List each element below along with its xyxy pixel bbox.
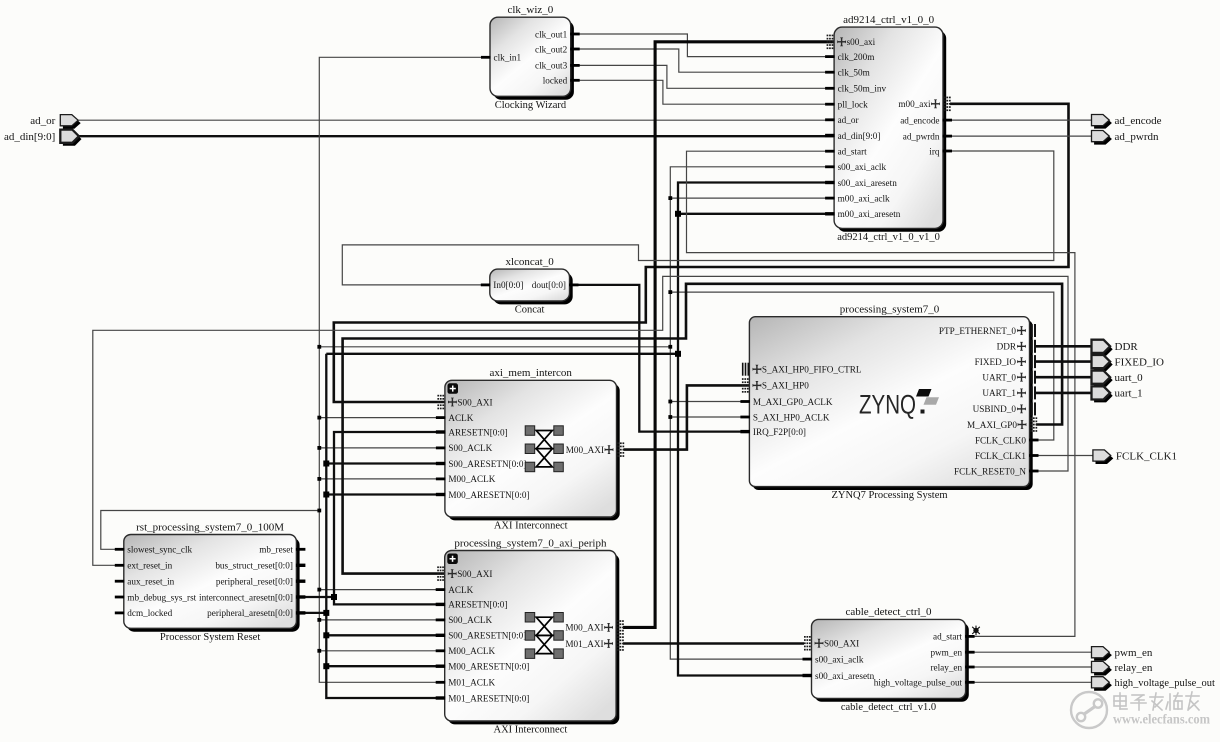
svg-text:s00_axi_aclk: s00_axi_aclk: [815, 654, 864, 664]
svg-text:M00_AXI: M00_AXI: [565, 623, 603, 633]
svg-text:ACLK: ACLK: [448, 413, 473, 423]
block clk_wiz_0: [481, 4, 580, 111]
svg-text:m00_axi_aclk: m00_axi_aclk: [838, 193, 890, 203]
svg-text:FCLK_CLK0: FCLK_CLK0: [975, 435, 1026, 445]
svg-text:S00_AXI: S00_AXI: [824, 639, 859, 649]
svg-text:ad_din[9:0]: ad_din[9:0]: [4, 131, 55, 143]
svg-text:m00_axi_aresetn: m00_axi_aresetn: [838, 209, 901, 219]
block processing_system7_0_axi_periph: [436, 537, 624, 735]
svg-text:DDR: DDR: [1115, 341, 1139, 353]
wire FIXED_IO wire: [1036, 360, 1092, 363]
svg-text:UART_1: UART_1: [982, 388, 1016, 398]
junction dots center clock spine: [668, 196, 672, 419]
svg-text:ARESETN[0:0]: ARESETN[0:0]: [448, 427, 507, 437]
elecfans watermark chinese text: [1114, 692, 1199, 710]
svg-text:locked: locked: [543, 76, 568, 86]
svg-text:high_voltage_pulse_out: high_voltage_pulse_out: [1115, 677, 1215, 689]
wire clock branch slowest_sync_clk: [101, 511, 319, 550]
svg-text:S_AXI_HP0_ACLK: S_AXI_HP0_ACLK: [753, 412, 830, 422]
svg-text:In0[0:0]: In0[0:0]: [493, 280, 523, 290]
svg-text:M01_AXI: M01_AXI: [565, 639, 603, 649]
svg-text:processing_system7_0: processing_system7_0: [840, 304, 940, 316]
svg-text:clk_wiz_0: clk_wiz_0: [507, 4, 553, 16]
output port DDR: [1092, 340, 1139, 356]
svg-text:ad_pwrdn: ad_pwrdn: [1115, 131, 1159, 143]
svg-text:S00_ACLK: S00_ACLK: [448, 615, 492, 625]
wire clock branch M_AXI_GP0_ACLK: [670, 401, 749, 403]
wire clk_out3 to clk_50m_inv: [571, 65, 834, 88]
svg-text:dout[0:0]: dout[0:0]: [532, 280, 566, 290]
block cable_detect_ctrl_0: [803, 606, 980, 713]
wire clock branch S_AXI_HP0_ACLK: [670, 416, 749, 418]
svg-text:M00_ARESETN[0:0]: M00_ARESETN[0:0]: [448, 490, 529, 500]
wire clock branch ACLK axi_mem: [319, 417, 445, 419]
svg-text:M_AXI_GP0: M_AXI_GP0: [967, 420, 1017, 430]
svg-text:high_voltage_pulse_out: high_voltage_pulse_out: [874, 678, 963, 688]
input port ad_din[9:0]: [4, 130, 82, 146]
wire clock branch S00_ACLK axi_periph: [319, 619, 444, 621]
wire clock cross-link between rails: [319, 346, 670, 348]
svg-text:relay_en: relay_en: [1115, 662, 1153, 674]
svg-text:rst_processing_system7_0_100M: rst_processing_system7_0_100M: [136, 521, 284, 533]
wire FCLK_CLK1 wire: [1030, 455, 1093, 457]
svg-text:FIXED_IO: FIXED_IO: [1115, 356, 1165, 368]
wire axi_mem M00_AXI to ZYNQ S_AXI_HP0: [624, 385, 750, 449]
wire aresetn branch M00_ARESETN axi_periph: [326, 665, 444, 667]
wire rst interconnect_aresetn to rail: [296, 596, 334, 598]
svg-text:ad_start: ad_start: [838, 147, 868, 157]
svg-text:axi_mem_intercon: axi_mem_intercon: [489, 367, 572, 379]
wire aresetn branch M00_ARESETN axi_mem: [326, 493, 445, 495]
svg-text:AXI Interconnect: AXI Interconnect: [494, 725, 568, 736]
svg-text:clk_in1: clk_in1: [494, 53, 522, 63]
svg-text:ad_pwrdn: ad_pwrdn: [903, 131, 940, 141]
svg-text:peripheral_aresetn[0:0]: peripheral_aresetn[0:0]: [207, 608, 293, 618]
svg-text:ACLK: ACLK: [448, 585, 473, 595]
svg-text:ad_din[9:0]: ad_din[9:0]: [838, 131, 881, 141]
wire clock branch S00_ACLK axi_mem: [319, 447, 445, 449]
svg-text:IRQ_F2P[0:0]: IRQ_F2P[0:0]: [753, 427, 806, 437]
wire rst peripheral_aresetn to rail: [296, 612, 326, 614]
wire UART_0 wire: [1036, 376, 1092, 379]
wire axi_periph M00_AXI to ad9214 s00_axi: [623, 42, 834, 628]
svg-text:FCLK_RESET0_N: FCLK_RESET0_N: [954, 466, 1026, 476]
wire ad_pwrdn wire: [943, 135, 1092, 137]
svg-text:clk_out3: clk_out3: [535, 61, 568, 71]
svg-text:S00_ARESETN[0:0]: S00_ARESETN[0:0]: [448, 459, 526, 469]
svg-text:FCLK_CLK1: FCLK_CLK1: [975, 451, 1026, 461]
svg-text:S_AXI_HP0_FIFO_CTRL: S_AXI_HP0_FIFO_CTRL: [762, 365, 862, 375]
svg-text:M00_AXI: M00_AXI: [566, 445, 604, 455]
wire aresetn branch m00_axi_aresetn: [678, 213, 834, 215]
svg-text:s00_axi_aresetn: s00_axi_aresetn: [838, 178, 898, 188]
svg-text:ad9214_ctrl_v1_0_0: ad9214_ctrl_v1_0_0: [843, 14, 935, 26]
svg-text:cable_detect_ctrl_v1.0: cable_detect_ctrl_v1.0: [841, 702, 936, 713]
svg-text:uart_0: uart_0: [1115, 372, 1144, 384]
svg-text:ZYNQ: ZYNQ: [859, 390, 916, 420]
svg-text:mb_debug_sys_rst: mb_debug_sys_rst: [127, 592, 196, 602]
svg-text:M00_ACLK: M00_ACLK: [448, 474, 495, 484]
block axi_mem_intercon: [436, 367, 624, 531]
wire cable ad_start to ad9214 ad_start: [687, 151, 1075, 636]
svg-text:Processor System Reset: Processor System Reset: [160, 632, 260, 643]
svg-text:ad_encode: ad_encode: [900, 115, 939, 125]
wire ad_din port to ad9214 ad_din: [74, 135, 834, 137]
junction dots interconnect aresetn: [331, 594, 337, 600]
block processing_system7_0 (ZYNQ): [740, 304, 1038, 502]
svg-text:Clocking Wizard: Clocking Wizard: [495, 100, 567, 111]
svg-text:S00_ARESETN[0:0]: S00_ARESETN[0:0]: [448, 631, 526, 641]
svg-text:ad_encode: ad_encode: [1115, 115, 1162, 127]
wire aresetn branch S00_ARESETN axi_mem: [326, 462, 445, 464]
svg-text:ext_reset_in: ext_reset_in: [127, 561, 172, 571]
wire FCLK_CLK0 left rail clk_in1/ACLK branches: [319, 57, 490, 682]
wire clock branch ACLK axi_periph: [319, 589, 444, 591]
wire aresetn branch S00_ARESETN axi_periph: [326, 634, 444, 636]
junction dots left clock rail: [317, 345, 321, 653]
svg-text:S_AXI_HP0: S_AXI_HP0: [762, 381, 809, 391]
block ad9214_ctrl_v1_0_0: [825, 14, 952, 243]
svg-text:m00_axi: m00_axi: [898, 99, 931, 109]
svg-text:relay_en: relay_en: [930, 662, 962, 672]
wire FCLK_CLK0 center spine s00_axi_aclk to cable aclk: [670, 167, 834, 659]
wire ad_encode wire: [943, 119, 1092, 121]
svg-text:UART_0: UART_0: [982, 373, 1016, 383]
input port ad_or: [30, 115, 80, 129]
svg-text:M01_ARESETN[0:0]: M01_ARESETN[0:0]: [448, 693, 529, 703]
wire ad_or port to ad9214 ad_or: [74, 119, 834, 121]
output port uart_0: [1092, 371, 1144, 387]
svg-text:S00_AXI: S00_AXI: [457, 569, 492, 579]
svg-text:peripheral_reset[0:0]: peripheral_reset[0:0]: [216, 577, 293, 587]
output port high_voltage_pulse_out: [1092, 677, 1215, 691]
elecfans watermark logo: [1071, 692, 1107, 728]
wire ad9214 irq to xlconcat In0: [342, 151, 1054, 285]
wire clock branch M00_ACLK axi_periph: [319, 650, 444, 652]
wire ZYNQ FCLK_RESET0_N to rst ext_reset_in: [93, 276, 1068, 565]
wire interconnect_aresetn to ARESETN pins: [334, 432, 445, 604]
svg-text:DDR: DDR: [997, 342, 1017, 352]
wire axi_periph M01_AXI to cable S00_AXI: [623, 642, 804, 645]
svg-text:FIXED_IO: FIXED_IO: [975, 357, 1017, 367]
wire ZYNQ M_AXI_GP0 to axi_periph S00_AXI: [343, 284, 1063, 574]
svg-text:ZYNQ7 Processing System: ZYNQ7 Processing System: [831, 490, 947, 501]
svg-text:M00_ACLK: M00_ACLK: [448, 646, 495, 656]
svg-text:M_AXI_GP0_ACLK: M_AXI_GP0_ACLK: [753, 397, 833, 407]
output port relay_en: [1092, 661, 1153, 675]
svg-text:M01_ACLK: M01_ACLK: [448, 678, 495, 688]
svg-text:pll_lock: pll_lock: [838, 100, 869, 110]
svg-text:dcm_locked: dcm_locked: [127, 608, 172, 618]
svg-text:mb_reset: mb_reset: [259, 545, 293, 555]
junction dots aresetn spine: [675, 211, 681, 357]
output port FIXED_IO: [1092, 355, 1165, 371]
svg-text:Concat: Concat: [515, 305, 545, 316]
output port pwm_en: [1092, 647, 1153, 661]
svg-text:S00_ACLK: S00_ACLK: [448, 443, 492, 453]
svg-text:xlconcat_0: xlconcat_0: [505, 256, 554, 268]
svg-text:ARESETN[0:0]: ARESETN[0:0]: [448, 600, 507, 610]
block rst_processing_system7_0_100M: [115, 521, 306, 643]
wire locked to pll_lock: [571, 80, 834, 104]
wire DDR wire: [1036, 345, 1092, 348]
svg-text:clk_50m_inv: clk_50m_inv: [838, 84, 887, 94]
svg-text:irq: irq: [929, 146, 940, 156]
svg-text:ad9214_ctrl_v1_0_v1_0: ad9214_ctrl_v1_0_v1_0: [837, 232, 940, 243]
output port FCLK_CLK1: [1093, 450, 1177, 464]
svg-text:cable_detect_ctrl_0: cable_detect_ctrl_0: [845, 606, 932, 618]
svg-text:aux_reset_in: aux_reset_in: [127, 577, 174, 587]
svg-text:AXI Interconnect: AXI Interconnect: [494, 521, 568, 532]
svg-text:M00_ARESETN[0:0]: M00_ARESETN[0:0]: [448, 662, 529, 672]
svg-text:S00_AXI: S00_AXI: [457, 397, 492, 407]
svg-text:bus_struct_reset[0:0]: bus_struct_reset[0:0]: [215, 561, 293, 571]
svg-text:s00_axi: s00_axi: [847, 37, 876, 47]
svg-text:www.elecfans.com: www.elecfans.com: [1113, 712, 1211, 727]
svg-text:clk_out1: clk_out1: [535, 29, 568, 39]
svg-text:PTP_ETHERNET_0: PTP_ETHERNET_0: [939, 326, 1016, 336]
wire peripheral_aresetn center spine to cable aresetn: [678, 183, 834, 676]
output port uart_1: [1092, 386, 1143, 402]
wire clock branch m00_axi_aclk: [670, 197, 834, 199]
wire clk_out1 to clk_200m: [571, 34, 834, 57]
svg-text:clk_out2: clk_out2: [535, 44, 568, 54]
wire peripheral_aresetn cross-link: [326, 353, 678, 355]
svg-text:ad_or: ad_or: [838, 115, 859, 125]
svg-text:interconnect_aresetn[0:0]: interconnect_aresetn[0:0]: [199, 592, 293, 602]
output port ad_pwrdn: [1092, 131, 1159, 145]
svg-text:USBIND_0: USBIND_0: [973, 404, 1017, 414]
svg-text:ad_or: ad_or: [30, 115, 55, 127]
svg-text:pwm_en: pwm_en: [930, 648, 962, 658]
block xlconcat_0: [481, 256, 579, 316]
svg-text:s00_axi_aresetn: s00_axi_aresetn: [815, 671, 875, 681]
junction dots left reset rail: [323, 461, 329, 670]
svg-text:clk_200m: clk_200m: [838, 52, 875, 62]
wire xlconcat dout to ZYNQ IRQ_F2P: [570, 285, 750, 432]
wire UART_1 wire: [1036, 392, 1092, 395]
svg-text:FCLK_CLK1: FCLK_CLK1: [1116, 450, 1177, 462]
wire FCLK_CLK0 feed: [670, 292, 1054, 440]
svg-text:pwm_en: pwm_en: [1115, 647, 1153, 659]
svg-text:ad_start: ad_start: [933, 632, 963, 642]
svg-text:processing_system7_0_axi_perip: processing_system7_0_axi_periph: [454, 537, 607, 549]
output port ad_encode: [1092, 115, 1162, 129]
wire clock branch M00_ACLK axi_mem: [319, 478, 445, 480]
svg-text:uart_1: uart_1: [1115, 388, 1143, 400]
wire pwm_en wire: [966, 651, 1092, 653]
wire ad9214 m00_axi to axi_mem S00_AXI: [334, 104, 1069, 402]
wire high_voltage_pulse_out wire: [966, 681, 1092, 683]
svg-text:clk_50m: clk_50m: [838, 68, 870, 78]
wire peripheral_aresetn left rail: [326, 354, 444, 698]
svg-text:s00_axi_aclk: s00_axi_aclk: [838, 162, 887, 172]
wire clk_out2 to clk_50m: [571, 49, 834, 72]
wire relay_en wire: [966, 666, 1092, 668]
svg-text:slowest_sync_clk: slowest_sync_clk: [127, 545, 192, 555]
